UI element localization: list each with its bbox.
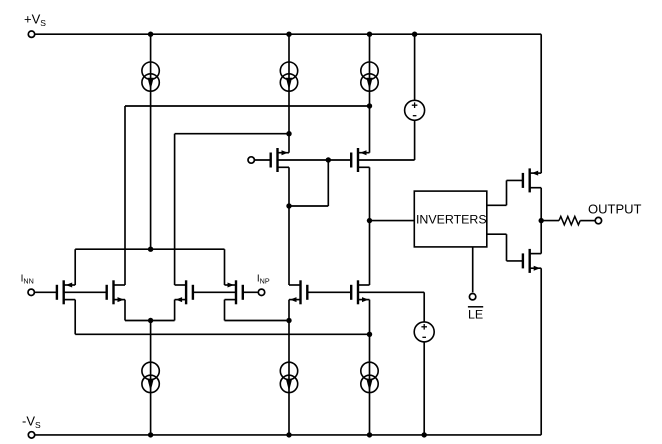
svg-text:LE: LE xyxy=(468,308,483,322)
svg-text:INVERTERS: INVERTERS xyxy=(416,212,487,226)
svg-text:OUTPUT: OUTPUT xyxy=(588,201,642,216)
